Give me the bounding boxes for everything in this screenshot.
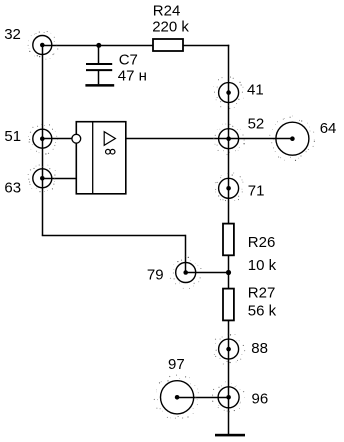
node 71 terminal (215, 173, 243, 205)
svg-text:71: 71 (248, 183, 265, 200)
junction dot between R26 and R27 (226, 270, 231, 275)
ground under C7 (85, 84, 114, 87)
wire bottom horizontal from left bus toward node 79 (42, 235, 186, 237)
wire C7 top lead (98, 45, 100, 64)
resistor R24 (153, 39, 183, 51)
svg-text:C7: C7 (119, 51, 138, 68)
op-amp U1 body (76, 122, 126, 194)
node 51 terminal (28, 124, 58, 154)
resistor R27 (223, 289, 234, 321)
node 32 terminal (28, 31, 59, 59)
node 41 terminal (213, 77, 243, 109)
wire left vertical bus through nodes 32 51 63 (42, 45, 44, 236)
wire R24 right lead to top-right corner (183, 45, 229, 47)
op-amp infinity gain symbol (106, 149, 115, 154)
op-amp triangle symbol (104, 132, 115, 146)
wire from node 32 to R24 left lead (top horizontal) (43, 45, 154, 47)
svg-text:10 k: 10 k (248, 257, 277, 274)
svg-text:220 k: 220 k (152, 18, 189, 35)
wire R26 bottom to R27 top (228, 255, 230, 288)
junction dot at C7 tap on top wire (96, 43, 101, 48)
svg-text:63: 63 (4, 180, 21, 197)
wire vertical drop into node 79 (185, 235, 187, 273)
svg-text:79: 79 (147, 267, 164, 284)
svg-text:41: 41 (247, 81, 264, 98)
op-amp inverting input bubble (72, 134, 81, 143)
svg-text:56 k: 56 k (248, 302, 277, 319)
wire node 51 to op-amp inverting input bubble (43, 138, 73, 140)
wire C7 bottom lead to ground (98, 70, 100, 84)
ground at bottom under node 96 (215, 434, 245, 437)
svg-text:88: 88 (251, 340, 268, 357)
node 96 terminal (212, 382, 245, 413)
node 79 terminal (170, 256, 202, 289)
wire node 79 to R26/R27 junction (186, 272, 229, 274)
wire op-amp output through node 52 to node 64 (126, 138, 293, 140)
resistor R26 (223, 224, 234, 256)
svg-text:51: 51 (4, 128, 21, 145)
svg-text:R24: R24 (153, 2, 181, 19)
wire node 63 to op-amp second input (43, 178, 77, 180)
wire R27 bottom through nodes 88 96 to ground (228, 320, 230, 434)
wire node 97 to node 96 (177, 397, 229, 399)
node 88 terminal (214, 334, 245, 365)
svg-text:47 н: 47 н (118, 67, 147, 84)
svg-text:64: 64 (320, 120, 337, 137)
wire main right vertical bus through nodes 41 52 71 to R26 (228, 45, 230, 224)
svg-text:97: 97 (168, 356, 185, 373)
node 97 terminal (154, 375, 199, 419)
svg-text:32: 32 (4, 26, 21, 43)
node 52 terminal (213, 124, 244, 156)
node 64 terminal (269, 116, 315, 161)
svg-text:96: 96 (252, 391, 269, 408)
svg-text:R27: R27 (248, 285, 276, 302)
svg-text:52: 52 (248, 115, 265, 132)
node 63 terminal (28, 164, 56, 192)
capacitor C7 (86, 64, 112, 70)
svg-text:R26: R26 (248, 234, 276, 251)
